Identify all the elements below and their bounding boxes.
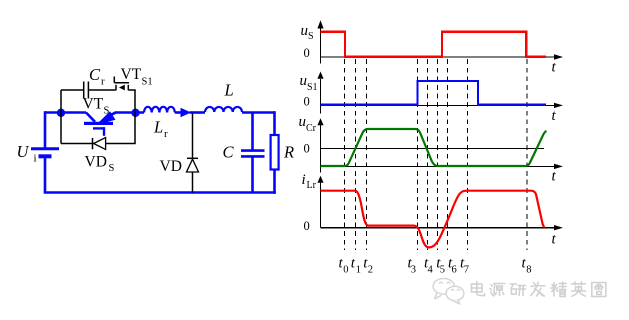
svg-text:0: 0: [304, 46, 310, 60]
svg-text:Cr: Cr: [306, 123, 317, 134]
svg-text:C: C: [89, 65, 101, 84]
dashed line t3: [417, 59, 419, 250]
svg-text:S: S: [308, 31, 314, 42]
inductor Lr coil: [144, 107, 175, 113]
svg-text:0: 0: [304, 142, 310, 156]
capacitor C bottom plate: [241, 155, 265, 158]
axis uCr zero line: [321, 147, 545, 149]
current arrow after Lr: [181, 108, 192, 117]
svg-text:u: u: [301, 23, 309, 39]
time labels t0..t8: [339, 256, 532, 276]
mosfet VTs1 gate: [114, 77, 129, 83]
svg-text:C: C: [223, 143, 235, 162]
wire R branch top: [273, 111, 276, 135]
axis iLr horizontal: [321, 227, 556, 229]
axis stub below uCr: [320, 166, 322, 172]
svg-text:u: u: [299, 114, 307, 130]
battery Ui short plate: [39, 154, 52, 158]
axis uS vertical: [320, 26, 322, 57]
diode VD wire top: [192, 113, 194, 159]
svg-text:0: 0: [304, 94, 310, 108]
arrow axis iLr top: [317, 176, 323, 183]
diode VD wire bottom: [192, 172, 194, 193]
wire Cr to VTs1: [89, 89, 117, 91]
wire bottom rail: [44, 191, 276, 194]
wire aux bottom edge right: [106, 143, 136, 145]
transistor VTs collector diagonal: [86, 113, 95, 122]
wire main top line left segment: [45, 111, 86, 114]
wire C branch bottom: [251, 157, 254, 193]
mosfet VTs1 arrow: [119, 85, 125, 91]
svg-text:S1: S1: [307, 82, 318, 93]
transistor VTs gate bar: [93, 127, 105, 129]
diode VDs cathode bar: [92, 138, 94, 149]
svg-text:0: 0: [343, 265, 348, 276]
trace uCr green: [321, 129, 547, 166]
dashed line t7: [467, 59, 469, 250]
axis stub below uS: [320, 57, 322, 64]
dashed line t0: [344, 59, 346, 250]
svg-text:L: L: [153, 118, 163, 137]
char ying: [572, 282, 586, 296]
char fa: [531, 282, 545, 296]
capacitor Cr left plate: [83, 82, 85, 99]
svg-text:r: r: [164, 128, 168, 140]
char jing: [551, 282, 567, 297]
char yan: [510, 284, 525, 296]
wire C branch top: [251, 113, 254, 151]
wire VTs1 to right corner: [128, 89, 135, 91]
black auxiliary loop: [61, 77, 198, 193]
axis uCr horizontal: [321, 165, 556, 167]
node dot right of VTs: [131, 109, 139, 117]
svg-text:i: i: [34, 153, 37, 165]
transistor VTs emitter link: [112, 113, 117, 115]
node dot left of VTs: [57, 109, 65, 117]
svg-text:L: L: [224, 81, 234, 100]
logo small bubble: [446, 286, 464, 300]
axis uS horizontal: [321, 56, 556, 58]
wire aux loop right vertical: [134, 90, 136, 144]
axis uS1 horizontal: [321, 104, 556, 106]
arrow axis uS right: [554, 54, 563, 59]
transistor VTs bar: [84, 122, 113, 125]
battery Ui long plate: [31, 147, 59, 150]
arrow axis uS1 top: [317, 72, 323, 79]
svg-text:S: S: [104, 106, 110, 117]
char quan: [592, 283, 606, 297]
svg-text:3: 3: [411, 265, 416, 276]
mosfet VTs1 left tick: [115, 85, 117, 91]
wire aux bottom edge left: [61, 143, 93, 145]
dashed line t2: [366, 59, 368, 250]
svg-text:0: 0: [304, 219, 310, 233]
capacitor Cr right plate: [87, 82, 89, 99]
svg-text:1: 1: [356, 265, 361, 276]
char dian: [472, 282, 485, 296]
svg-text:5: 5: [440, 265, 445, 276]
svg-text:S: S: [109, 163, 115, 174]
svg-text:R: R: [283, 143, 294, 162]
wire main top line mid segment: [115, 111, 145, 114]
svg-text:VT: VT: [83, 96, 104, 113]
svg-text:S1: S1: [142, 77, 153, 88]
transistor VTs emitter arrow: [96, 111, 116, 125]
logo wechat bubbles: [433, 279, 464, 305]
dashed line t5: [437, 59, 439, 250]
wire left branch battery top: [44, 111, 47, 148]
svg-text:u: u: [300, 73, 308, 89]
arrow axis uS top: [317, 20, 323, 28]
diode VD triangle: [187, 159, 199, 172]
axis iLr vertical: [320, 182, 322, 228]
axis uCr vertical: [320, 125, 322, 166]
dashed line t1: [355, 59, 357, 250]
logo big bubble: [433, 279, 454, 295]
svg-text:4: 4: [428, 265, 434, 276]
svg-text:VD: VD: [160, 158, 182, 175]
dashed line t8: [526, 59, 528, 250]
dashed line t6: [447, 59, 449, 250]
inductor L coil: [205, 107, 242, 112]
svg-text:VT: VT: [121, 66, 142, 83]
svg-text:U: U: [17, 142, 30, 161]
wire aux loop left vertical: [60, 90, 62, 144]
dashed time lines t0..t8: [345, 59, 528, 250]
arrow axis iLr right: [554, 225, 563, 230]
arrow axis uCr top: [317, 118, 323, 125]
arrow axis uS1 right: [554, 103, 563, 108]
arrowheads: [317, 20, 563, 230]
watermark text (simplified CJK strokes): [472, 282, 606, 297]
wire main line VD junction to L coil: [190, 111, 206, 114]
diode VD cathode bar: [187, 157, 198, 159]
char yuan: [490, 284, 505, 297]
wire main line after Lr coil: [175, 111, 182, 114]
svg-text:r: r: [101, 76, 105, 88]
logo small bubble tail: [453, 300, 460, 304]
logo eyes: [439, 282, 443, 283]
axes: [321, 26, 556, 228]
svg-text:VD: VD: [85, 154, 107, 171]
diode VDs triangle: [94, 138, 106, 150]
wire battery bottom to ground rail: [44, 158, 47, 193]
svg-text:6: 6: [452, 265, 457, 276]
logo big bubble tail: [435, 293, 442, 299]
wire main line L coil to right corner: [242, 111, 275, 114]
capacitor C top plate: [241, 149, 265, 152]
svg-text:8: 8: [526, 265, 531, 276]
wire R branch bottom: [273, 170, 276, 194]
svg-text:i: i: [302, 172, 306, 188]
wire aux top edge to Cr: [61, 89, 84, 91]
svg-text:2: 2: [368, 265, 373, 276]
arrow axis uCr right: [554, 164, 563, 169]
resistor R box: [271, 135, 279, 170]
trace iLr red: [321, 191, 545, 248]
trace uS red: [321, 32, 547, 57]
mosfet VTs1 right tick: [127, 85, 129, 91]
trace uS1 blue: [321, 81, 547, 105]
svg-text:7: 7: [464, 265, 469, 276]
axis uS1 vertical: [320, 79, 322, 105]
axis stub below uS1: [320, 105, 322, 113]
dashed line t4: [427, 59, 429, 250]
svg-text:Lr: Lr: [307, 180, 317, 191]
transistor VTs gate lead: [103, 127, 105, 136]
